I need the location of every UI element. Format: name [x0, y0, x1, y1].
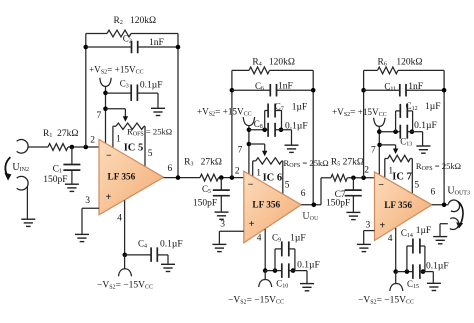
wire C6 left: [232, 89, 271, 91]
wire pin4 st2: [264, 229, 266, 271]
wire lower arc to ground: [26, 187, 28, 219]
wire pot pin1 st1: [113, 125, 116, 127]
svg-text:0.1µF: 0.1µF: [414, 121, 437, 131]
svg-text:C14: C14: [401, 228, 413, 239]
svg-text:0.1µF: 0.1µF: [160, 240, 183, 250]
wire C1 top: [71, 147, 73, 164]
svg-text:UOU: UOU: [302, 211, 319, 222]
wire C2 right: [138, 46, 178, 48]
svg-text:IC 7: IC 7: [392, 172, 412, 183]
svg-text:150pF: 150pF: [193, 199, 217, 209]
svg-text:1µF: 1µF: [292, 103, 308, 113]
svg-text:C3: C3: [120, 79, 129, 90]
wire C12 branch up: [395, 111, 397, 132]
svg-text:0.1µF: 0.1µF: [140, 80, 163, 90]
wire C12 right down: [407, 110, 412, 112]
wire R3 to pin2 st2: [219, 177, 244, 179]
wire C3 right: [137, 92, 158, 94]
capacitor C12: [399, 104, 401, 118]
potentiometer ROFS st3: [388, 155, 410, 161]
svg-text:0.1µF: 0.1µF: [426, 261, 449, 271]
wire pot pin5 st2: [282, 160, 283, 162]
op-amp IC6 LF356 triangle: [244, 171, 301, 243]
node bypass junction st2: [247, 128, 252, 133]
wire feedback left vertical st1: [85, 34, 87, 148]
capacitor C2: [131, 41, 133, 54]
ground pin3 st2: [212, 244, 226, 251]
wire -15V st3: [395, 272, 397, 284]
node wiper junction st1: [103, 107, 108, 112]
wire output gnd: [440, 223, 448, 225]
capacitor C15: [412, 264, 414, 279]
potentiometer ROFS st1: [116, 123, 144, 129]
wire V+ vertical st2: [248, 126, 250, 175]
wire R4 top left: [232, 69, 249, 71]
svg-text:3: 3: [85, 196, 90, 206]
wire C7 right down: [275, 110, 281, 112]
wire C3 left: [106, 92, 132, 94]
svg-text:−: −: [106, 151, 112, 162]
svg-text:1µF: 1µF: [416, 226, 432, 236]
svg-text:2: 2: [90, 136, 95, 146]
wire C15 right: [420, 271, 433, 273]
svg-text:5: 5: [285, 181, 290, 191]
wire output st1: [164, 177, 201, 179]
terminal -15V st3: [390, 284, 403, 292]
svg-text:C5: C5: [202, 184, 211, 195]
wire feedback left vertical st3: [363, 70, 365, 177]
wire C6 right: [276, 89, 313, 91]
node wiper junction st2: [247, 142, 252, 147]
svg-text:C1: C1: [53, 165, 62, 175]
svg-text:+: +: [249, 219, 255, 230]
ground output: [433, 237, 447, 244]
output terminal upper arc: [448, 200, 459, 212]
wire pin3 st1: [82, 207, 99, 209]
wire pin4 st1: [124, 200, 126, 255]
op-amp IC7 LF356 triangle: [375, 172, 432, 241]
svg-text:150pF: 150pF: [326, 199, 350, 209]
svg-text:+: +: [106, 192, 112, 203]
node C1 junction: [70, 145, 75, 150]
svg-text:−: −: [248, 180, 254, 191]
wire pot pin1 st3: [385, 158, 388, 160]
resistor R4: [249, 67, 270, 74]
ground bypass st3: [416, 146, 430, 153]
svg-text:5: 5: [148, 149, 153, 159]
wire V+ vertical st3: [378, 126, 380, 174]
svg-text:ROFS = 25kΩ: ROFS = 25kΩ: [416, 161, 461, 172]
wire R4 top right: [270, 69, 314, 71]
capacitor C7 bypass: [267, 104, 269, 118]
svg-text:150pF: 150pF: [43, 175, 67, 185]
wire feedback left vertical st2: [231, 70, 233, 177]
capacitor C9: [281, 241, 283, 256]
wire R6 top left: [364, 69, 378, 71]
node output st3: [442, 203, 447, 208]
wire C1 bottom: [71, 170, 73, 183]
ground input: [21, 219, 35, 226]
wiper arrow st2: [264, 144, 266, 152]
svg-text:C15: C15: [407, 279, 419, 290]
svg-text:4: 4: [117, 214, 122, 224]
node C9 left branch: [273, 268, 278, 273]
svg-text:C9: C9: [272, 232, 281, 243]
terminal -15V st2: [259, 280, 272, 288]
wire C11 right: [406, 89, 444, 91]
capacitor C4: [150, 247, 152, 262]
node C8 right: [279, 128, 284, 133]
node C5 junction: [219, 175, 224, 180]
ground C1: [65, 184, 79, 191]
svg-text:3: 3: [220, 219, 225, 229]
resistor R1: [48, 144, 68, 151]
wire pot pin1 st2: [253, 160, 256, 162]
node fb junction st2: [230, 175, 235, 180]
svg-text:−VS2= −15VCC: −VS2= −15VCC: [358, 296, 414, 306]
resistor R5: [331, 174, 347, 181]
wire pot pin5 st3: [410, 158, 412, 160]
wire C13 left: [379, 131, 401, 133]
wire C9 down: [289, 248, 295, 250]
svg-text:R3 27kΩ: R3 27kΩ: [184, 158, 222, 168]
wire C7b top: [352, 178, 354, 190]
wire V+ vertical st1: [105, 86, 107, 145]
svg-text:−VS2= −15VCC: −VS2= −15VCC: [228, 296, 284, 306]
capacitor C7b 150pF: [345, 189, 362, 191]
svg-text:R4 120kΩ: R4 120kΩ: [252, 58, 295, 68]
capacitor C13: [399, 125, 401, 139]
wire wiper st1: [106, 108, 126, 110]
capacitor C14: [412, 239, 414, 254]
svg-text:3: 3: [366, 221, 371, 231]
capacitor C3: [130, 84, 132, 101]
svg-text:LF 356: LF 356: [108, 173, 136, 183]
ground st3 bottom: [427, 283, 441, 290]
wire C7 branch up: [264, 111, 266, 130]
svg-text:7: 7: [371, 146, 376, 156]
node C11 left: [361, 88, 366, 93]
wire output st2: [301, 204, 321, 206]
wire feedback right vertical st3: [443, 70, 445, 204]
svg-text:LF 356: LF 356: [252, 201, 280, 211]
svg-text:C4: C4: [138, 239, 147, 250]
wire feedback right vertical st1: [177, 34, 179, 178]
source arrow input: [5, 157, 10, 176]
wire output st3: [432, 204, 449, 206]
wire output rise st2: [320, 178, 322, 205]
wire C11 left: [364, 89, 400, 91]
svg-text:6: 6: [301, 189, 306, 199]
ground C5: [215, 212, 229, 219]
wire R2 top left: [86, 33, 107, 35]
wire C15 left: [396, 271, 413, 273]
input terminal UIN2 upper arc: [17, 140, 28, 154]
wire C5 bottom: [220, 196, 222, 212]
svg-text:R1 27kΩ: R1 27kΩ: [43, 129, 78, 139]
resistor R3: [200, 174, 219, 181]
node C14 right branch: [421, 269, 426, 274]
node pin4 st3: [393, 269, 398, 274]
svg-text:1: 1: [256, 169, 261, 179]
svg-text:1µF: 1µF: [290, 233, 306, 243]
svg-text:1: 1: [116, 135, 121, 145]
terminal +15V st3: [374, 118, 385, 127]
wire wiper st2: [249, 143, 265, 145]
wire pin3 st3: [364, 230, 375, 232]
svg-text:2: 2: [235, 167, 240, 177]
wire pin4 st3: [395, 228, 397, 272]
wire feedback right vertical st2: [312, 70, 314, 204]
ground C3: [151, 108, 165, 115]
wire R1 to pin2 node: [68, 146, 99, 148]
node C6 right: [311, 88, 316, 93]
svg-text:+VS2= +15VCC: +VS2= +15VCC: [89, 65, 144, 76]
node C2 right: [176, 45, 181, 50]
wiper arrow st1: [124, 109, 126, 118]
node pin4 st1: [123, 253, 128, 258]
svg-text:UIN2: UIN2: [12, 162, 29, 173]
node pin4 st2: [263, 268, 268, 273]
wire R5 to pin2 st3: [347, 177, 374, 179]
source arrow output: [458, 202, 463, 225]
node C3 junction: [103, 91, 108, 96]
node bypass junction st3: [377, 129, 382, 134]
svg-text:R2 120kΩ: R2 120kΩ: [114, 16, 157, 26]
wire C13 right: [407, 131, 422, 133]
node C12 branch st3: [393, 129, 398, 134]
capacitor C10: [281, 263, 283, 278]
svg-text:1µF: 1µF: [425, 102, 441, 112]
wire C10 left: [265, 270, 281, 272]
wire C2 left: [86, 46, 132, 48]
wire C14 up: [406, 246, 408, 272]
terminal -15V st1: [119, 269, 132, 277]
svg-text:IC 5: IC 5: [124, 143, 144, 154]
svg-text:7: 7: [97, 111, 102, 121]
op-amp IC5 LF356 triangle: [99, 140, 164, 215]
svg-text:6: 6: [431, 187, 436, 197]
ground pin3 st3: [357, 244, 371, 251]
wire pin3 st2: [219, 230, 243, 232]
svg-text:C13: C13: [400, 137, 412, 148]
capacitor C6: [269, 84, 271, 97]
svg-text:6: 6: [168, 164, 173, 174]
node output st2: [312, 203, 317, 208]
svg-text:+VS2= +15VCC: +VS2= +15VCC: [197, 107, 252, 118]
node C7b junction: [351, 176, 356, 181]
svg-text:UOUT3: UOUT3: [447, 185, 470, 196]
wire C7b bottom: [352, 196, 354, 212]
svg-text:0.1µF: 0.1µF: [297, 261, 320, 271]
node fb junction st3: [361, 176, 366, 181]
resistor R2: [107, 30, 131, 37]
node C11 right: [442, 88, 447, 93]
ground st2 bottom: [300, 284, 314, 291]
wire C14 down: [420, 245, 425, 247]
svg-text:R6 120kΩ: R6 120kΩ: [378, 58, 423, 68]
resistor R6: [378, 67, 399, 74]
svg-text:2: 2: [364, 166, 369, 176]
svg-text:R5 27kΩ: R5 27kΩ: [331, 158, 364, 168]
terminal +15V st1: [100, 78, 111, 87]
wire wiper st3: [380, 144, 396, 146]
ground C4: [161, 264, 175, 271]
output terminal lower arc: [450, 218, 459, 230]
node output st1: [176, 175, 181, 180]
terminal +15V st2: [243, 117, 254, 126]
wire -15V st1: [124, 255, 126, 269]
wire -15V st2: [264, 271, 266, 280]
node C6 left: [230, 88, 235, 93]
wire C9 up: [274, 249, 276, 271]
node C13 right: [410, 129, 415, 134]
svg-text:7: 7: [238, 146, 243, 156]
ground C7b: [346, 212, 360, 219]
capacitor C5: [213, 189, 230, 191]
svg-text:4: 4: [388, 234, 393, 244]
svg-text:+VS2= +15VCC: +VS2= +15VCC: [332, 107, 387, 118]
node pin2 junction: [84, 145, 89, 150]
wire C4 right: [157, 254, 168, 256]
ground bypass st2: [285, 145, 299, 152]
svg-text:C6: C6: [255, 81, 264, 92]
svg-text:+: +: [380, 220, 386, 231]
wire R2 top right: [131, 33, 178, 35]
capacitor C11: [399, 84, 401, 97]
wire C8 left: [249, 129, 268, 131]
svg-text:IC 6: IC 6: [263, 173, 283, 184]
svg-text:C11: C11: [384, 82, 396, 93]
svg-text:5: 5: [414, 180, 419, 190]
node C14 left branch: [405, 269, 410, 274]
wire C10 right: [289, 270, 307, 272]
svg-text:0.1µF: 0.1µF: [285, 121, 308, 131]
wire R6 top right: [398, 69, 444, 71]
node C9 right branch: [291, 268, 296, 273]
potentiometer ROFS st2: [256, 158, 282, 164]
svg-text:C8: C8: [254, 119, 263, 130]
node C2 left: [84, 45, 89, 50]
wire C5 top: [220, 178, 222, 190]
node C7 branch st2: [262, 128, 267, 133]
input terminal lower arc: [17, 176, 28, 190]
svg-text:LF 356: LF 356: [384, 201, 412, 211]
node wiper junction st3: [377, 143, 382, 148]
wire pot pin5 st1: [144, 125, 145, 127]
svg-text:ROFS = 25kΩ: ROFS = 25kΩ: [284, 158, 329, 169]
svg-text:−: −: [378, 180, 384, 191]
capacitor C1: [63, 164, 80, 166]
svg-text:−VS2= −15VCC: −VS2= −15VCC: [97, 281, 153, 291]
svg-text:4: 4: [257, 233, 262, 243]
ground pin3 st1: [75, 234, 89, 241]
svg-text:C10: C10: [276, 278, 288, 289]
wire C4 left: [125, 254, 151, 256]
wire C8 right: [275, 129, 291, 131]
wire input to R1: [28, 146, 48, 148]
capacitor C8: [267, 123, 269, 137]
wiper arrow st3: [395, 145, 397, 150]
